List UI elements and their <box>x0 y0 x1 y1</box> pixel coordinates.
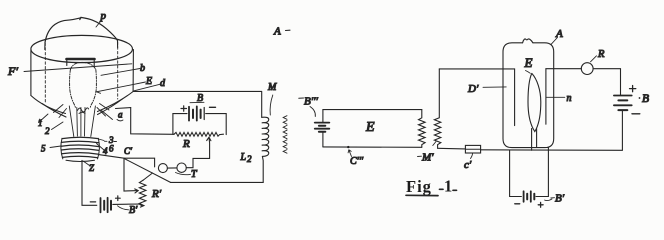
bulb holder window rectangle <box>67 59 95 67</box>
battery B' plates <box>101 198 112 213</box>
bottom wire to coil <box>171 181 264 183</box>
label M' <box>418 142 437 164</box>
coil M' left winding <box>419 110 426 148</box>
resistor R (potentiometer) <box>174 132 224 136</box>
coil L2 tail <box>261 156 264 182</box>
svg-text:D′: D′ <box>467 83 479 95</box>
svg-text:A: A <box>273 26 281 38</box>
label D' with pointer <box>467 83 506 95</box>
key T contact circle 2 <box>177 163 186 172</box>
label A- (mid) <box>273 26 290 38</box>
battery B loop risers <box>173 114 226 135</box>
wire from contact a <box>116 107 131 110</box>
label B (right) <box>639 93 649 105</box>
label a with pointer <box>117 110 123 121</box>
drum bottom left arcs <box>31 96 66 118</box>
svg-text:d: d <box>160 78 166 89</box>
drum bottom right arcs <box>98 92 134 115</box>
label 3 with dashes <box>99 135 117 145</box>
plate D' <box>514 69 516 126</box>
label R (meter) with pointer <box>591 49 606 62</box>
label E (tube) <box>524 55 533 73</box>
svg-text:6: 6 <box>109 144 114 154</box>
label C' (box) with pointer <box>464 154 473 172</box>
screw base threads <box>61 137 99 157</box>
coil L2 loops <box>262 117 269 156</box>
tube A top nub <box>523 39 533 43</box>
screw base side profile <box>61 138 100 161</box>
battery B (right) plates <box>614 96 632 111</box>
key T right step to wiper <box>186 158 209 167</box>
label d with pointer <box>134 78 166 91</box>
svg-text:L: L <box>240 152 247 163</box>
rheostat R' tap from diagonal <box>143 173 152 180</box>
svg-text:2: 2 <box>45 126 50 136</box>
svg-text:R: R <box>182 138 190 150</box>
label B with underline <box>190 93 204 104</box>
label 1 with arrow <box>38 114 48 128</box>
E loop top wire <box>323 109 422 111</box>
label B' (right) with pointer <box>545 193 565 205</box>
key T link <box>167 167 177 169</box>
svg-text:Z: Z <box>89 163 95 173</box>
svg-text:F′: F′ <box>7 64 18 78</box>
capacitor box C' <box>465 145 480 153</box>
svg-text:R: R <box>597 49 605 60</box>
svg-text:5: 5 <box>41 144 46 154</box>
label b with pointer <box>101 63 145 75</box>
wire meter to battery B <box>593 69 620 95</box>
Fig. 1. caption <box>406 177 457 197</box>
coil M' right winding <box>434 69 440 148</box>
node C''' with label <box>347 146 364 167</box>
svg-text:M′: M′ <box>421 152 434 164</box>
wiper arrow to R' <box>124 158 138 193</box>
meter R circle <box>581 63 593 75</box>
bottom wire C' box to battery B feed <box>481 149 623 152</box>
label 4 with arrow <box>97 144 109 157</box>
bulb filament squiggle <box>78 108 89 114</box>
label M with pointer <box>267 82 277 115</box>
tube A envelope <box>503 43 554 148</box>
wire battery B' to R' <box>113 204 142 206</box>
label T with pointer <box>176 169 199 180</box>
svg-text:1: 1 <box>444 177 452 196</box>
svg-text:4: 4 <box>103 146 108 156</box>
battery B' (right) wires <box>536 148 548 197</box>
battery B plus <box>181 106 187 111</box>
svg-text:B′: B′ <box>555 193 565 205</box>
svg-text:B′: B′ <box>129 205 138 216</box>
svg-text:C′′′: C′′′ <box>350 156 364 167</box>
svg-text:c′: c′ <box>464 159 472 171</box>
battery B' (right) plus <box>538 202 543 207</box>
label 5 with arrow <box>41 144 61 154</box>
label 2 with arrow <box>45 122 63 136</box>
label B' with pointer <box>118 205 139 216</box>
svg-text:M: M <box>267 82 277 93</box>
hidden dome wall lines (dashed) <box>45 42 117 102</box>
key T contact circle 1 <box>158 164 167 173</box>
svg-text:Fig: Fig <box>406 177 432 196</box>
bulb neck <box>69 106 95 137</box>
battery B' plus <box>116 196 121 201</box>
svg-text:B′′′: B′′′ <box>304 96 319 108</box>
svg-text:b: b <box>140 63 145 74</box>
wire M' to tube plate D' <box>439 68 514 70</box>
key T left step <box>124 158 155 167</box>
label A (tube) with pointer <box>551 28 563 45</box>
battery B plates <box>189 106 204 120</box>
wire bulb base to battery B' <box>82 160 97 205</box>
svg-text:C′: C′ <box>124 146 133 156</box>
incandescent bulb glass <box>70 62 97 108</box>
svg-text:E: E <box>365 120 375 135</box>
wiper arrow on R <box>207 137 211 158</box>
svg-text:R′: R′ <box>151 188 162 200</box>
svg-text:p: p <box>100 10 107 22</box>
filament ellipse <box>528 73 541 131</box>
label Z with pointer <box>83 161 95 173</box>
svg-text:T: T <box>191 169 198 180</box>
drum F' top rim ellipse <box>31 35 133 62</box>
label B''' with pointer <box>299 96 319 117</box>
battery B (right) minus <box>632 113 640 115</box>
wire base contact to junction C' <box>99 155 125 159</box>
coil L2 feed <box>261 91 263 117</box>
label E (drum) with pointer <box>97 76 153 93</box>
wire electrode to meter R <box>546 68 581 70</box>
svg-text:a: a <box>118 110 123 120</box>
label n with dash <box>546 93 571 104</box>
battery B''' feeds <box>322 110 324 147</box>
battery B minus <box>210 106 216 108</box>
svg-text:2: 2 <box>247 154 252 164</box>
wire M' to C' box <box>438 147 466 150</box>
svg-text:n: n <box>567 93 572 104</box>
battery B''' plates <box>315 123 330 132</box>
rheostat R' zigzag <box>139 180 146 207</box>
label F' <box>7 64 132 78</box>
battery B (right) feed down <box>621 110 623 150</box>
rays around drum opening <box>54 104 113 120</box>
battery B (right) plus <box>630 86 636 92</box>
dome cover p over drum <box>45 17 118 49</box>
battery B' (right) plates <box>524 191 535 202</box>
magnetic core chevrons <box>283 116 287 154</box>
top wire to coil <box>133 90 262 92</box>
svg-text:E: E <box>145 76 152 87</box>
diagonal wire from C' junction <box>124 158 171 182</box>
drum right wall <box>132 50 134 92</box>
svg-text:E: E <box>524 55 533 70</box>
drum left wall <box>30 50 32 96</box>
label p <box>96 10 107 27</box>
wire a to lower run <box>131 108 174 135</box>
filament leads <box>532 129 537 151</box>
electrode n <box>545 69 547 124</box>
junction down to battery B' (right) <box>510 150 522 196</box>
battery B' minus <box>90 201 95 203</box>
battery B' (right) minus <box>515 203 520 205</box>
svg-text:B: B <box>642 93 649 105</box>
E loop bottom wire <box>323 146 422 148</box>
